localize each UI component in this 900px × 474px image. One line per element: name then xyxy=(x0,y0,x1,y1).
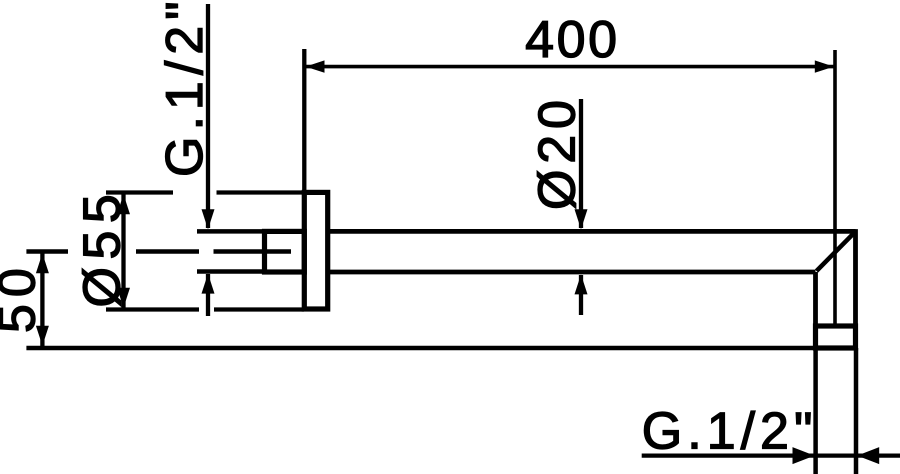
dimension 50: down arrowhead xyxy=(36,326,49,346)
dimension D55: up arrowhead xyxy=(117,194,130,214)
label G.1/2 left: upper leader line xyxy=(206,4,210,228)
dimension D55: bottom extension line segment a xyxy=(106,307,199,311)
wall flange rectangle xyxy=(304,192,327,309)
dimension 400: left arrowhead xyxy=(306,60,325,72)
shower arm tube top edge xyxy=(327,229,856,234)
svg-text:Ø55: Ø55 xyxy=(74,187,132,308)
dimension D55: top extension line segment b xyxy=(217,190,305,194)
outlet fitting nut rectangle xyxy=(816,326,856,348)
wire: center axis line segment 2 xyxy=(136,249,199,254)
wire: bottom outlet reference line xyxy=(26,346,814,351)
dimension D20: down arrowhead xyxy=(575,209,588,229)
dimension 50: up arrowhead xyxy=(36,253,49,273)
dimension G.1/2 bottom: dimension line xyxy=(642,453,900,457)
wire: center axis line segment 3 xyxy=(214,249,292,254)
thread OD extension line bottom (left G.1/2) xyxy=(197,269,266,274)
svg-text:G.1/2": G.1/2" xyxy=(156,0,214,177)
bend miter diagonal xyxy=(817,233,855,272)
label G.1/2 left: up arrowhead xyxy=(202,274,215,294)
shower arm tube bottom edge xyxy=(327,270,816,275)
dimension D55: dimension line xyxy=(121,194,125,308)
dimension 400: dimension line xyxy=(304,65,835,69)
dimension D55: down arrowhead xyxy=(117,288,130,308)
dimension G.1/2 bottom: left-pointing arrowhead xyxy=(857,447,879,464)
dimension D20: up arrowhead xyxy=(575,274,588,294)
label G.1/2 left: lower leader line xyxy=(206,274,210,316)
dimension 400: left extension line xyxy=(302,49,306,190)
dimension 400: right arrowhead xyxy=(815,60,834,72)
outlet pipe right edge below nut xyxy=(854,348,859,474)
dimension D55: bottom extension line segment b xyxy=(214,307,304,311)
dimension 50: dimension line xyxy=(40,253,44,346)
bend inner vertical edge xyxy=(813,272,818,326)
wall thread nipple rectangle xyxy=(265,231,305,272)
dimension D55: top extension line segment a xyxy=(106,190,173,194)
dimension D20: upper leader line xyxy=(579,99,583,228)
svg-text:400: 400 xyxy=(525,11,620,69)
wire: center axis line segment 1 xyxy=(26,249,68,254)
svg-text:G.1/2": G.1/2" xyxy=(642,403,818,461)
label G.1/2 left: down arrowhead xyxy=(202,209,215,229)
outlet pipe left edge below nut xyxy=(813,348,818,474)
dimension G.1/2 bottom: right-pointing arrowhead xyxy=(793,447,815,464)
dimension 400: right extension line xyxy=(833,50,837,324)
svg-text:50: 50 xyxy=(0,261,47,333)
svg-text:Ø20: Ø20 xyxy=(529,94,587,210)
thread OD extension line top (left G.1/2) xyxy=(197,229,266,234)
dimension D20: lower leader line xyxy=(579,275,583,315)
bend outer vertical edge xyxy=(853,229,858,348)
